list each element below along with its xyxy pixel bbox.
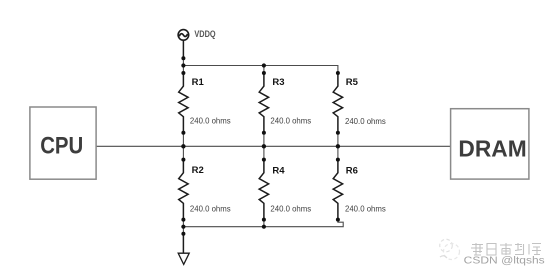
svg-text:240.0 ohms: 240.0 ohms: [270, 117, 311, 126]
svg-text:240.0 ohms: 240.0 ohms: [270, 205, 311, 214]
svg-text:R5: R5: [346, 77, 359, 88]
svg-text:DRAM: DRAM: [458, 135, 526, 161]
svg-text:CPU: CPU: [40, 132, 83, 159]
svg-text:240.0 ohms: 240.0 ohms: [190, 205, 231, 214]
svg-text:VDDQ: VDDQ: [194, 29, 215, 39]
svg-text:CSDN @ltqshs: CSDN @ltqshs: [464, 254, 545, 266]
svg-text:240.0 ohms: 240.0 ohms: [190, 117, 231, 126]
svg-text:R6: R6: [346, 165, 358, 176]
svg-text:R3: R3: [272, 77, 284, 88]
svg-text:240.0 ohms: 240.0 ohms: [345, 117, 386, 126]
svg-text:R2: R2: [192, 165, 204, 176]
svg-text:R1: R1: [192, 77, 205, 88]
svg-text:R4: R4: [272, 165, 285, 176]
svg-text:240.0 ohms: 240.0 ohms: [345, 205, 386, 214]
